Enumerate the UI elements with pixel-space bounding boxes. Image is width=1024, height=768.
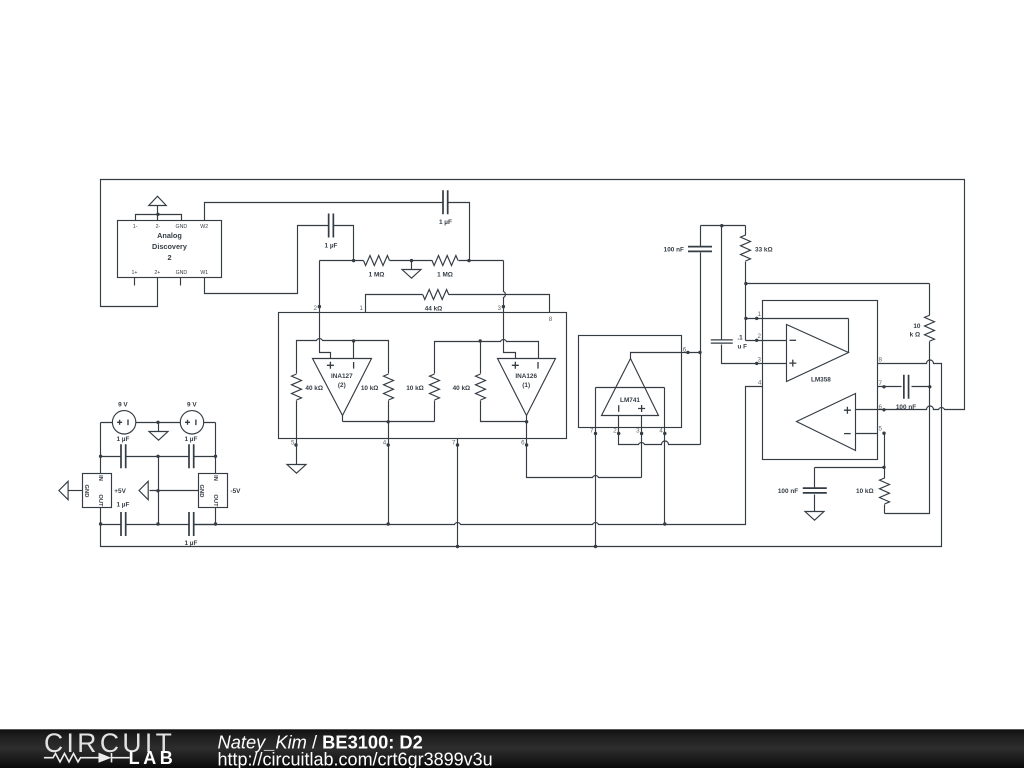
- svg-text:3: 3: [636, 428, 640, 435]
- svg-text:GND: GND: [198, 485, 204, 498]
- svg-text:100 nF: 100 nF: [664, 247, 684, 254]
- svg-text:1 MΩ: 1 MΩ: [369, 272, 385, 279]
- svg-text:8: 8: [879, 357, 883, 364]
- svg-text:4: 4: [659, 428, 663, 435]
- svg-text:(2): (2): [338, 382, 346, 389]
- svg-text:LM741: LM741: [620, 397, 640, 404]
- svg-text:W2: W2: [200, 224, 208, 230]
- svg-text:40 kΩ: 40 kΩ: [453, 385, 471, 392]
- svg-text:7: 7: [452, 440, 456, 447]
- svg-text:2: 2: [167, 253, 171, 262]
- svg-text:LM358: LM358: [811, 376, 831, 383]
- svg-text:1 µF: 1 µF: [116, 501, 129, 508]
- svg-text:1: 1: [758, 311, 762, 318]
- svg-text:INA127: INA127: [331, 373, 353, 380]
- svg-text:44 kΩ: 44 kΩ: [425, 305, 443, 312]
- svg-text:1 µF: 1 µF: [184, 540, 197, 547]
- svg-text:OUT: OUT: [97, 494, 103, 507]
- svg-text:10 kΩ: 10 kΩ: [406, 385, 424, 392]
- svg-text:Analog: Analog: [157, 231, 182, 240]
- svg-text:2: 2: [314, 305, 318, 312]
- svg-text:IN: IN: [212, 475, 218, 481]
- svg-text:1+: 1+: [131, 270, 137, 276]
- svg-text:7: 7: [590, 428, 594, 435]
- svg-text:6: 6: [521, 440, 525, 447]
- svg-text:10: 10: [913, 323, 921, 330]
- svg-text:5: 5: [291, 440, 295, 447]
- svg-text:INA126: INA126: [515, 373, 537, 380]
- svg-text:1 µF: 1 µF: [184, 436, 197, 443]
- svg-text:GND: GND: [176, 224, 188, 230]
- svg-text:http://circuitlab.com/crt6gr38: http://circuitlab.com/crt6gr3899v3u: [218, 750, 493, 768]
- svg-text:.1: .1: [737, 335, 743, 342]
- svg-text:+5V: +5V: [114, 488, 126, 495]
- svg-text:10 kΩ: 10 kΩ: [361, 385, 379, 392]
- svg-text:-5V: -5V: [231, 488, 242, 495]
- svg-text:W1: W1: [200, 270, 208, 276]
- svg-text:GND: GND: [176, 270, 188, 276]
- svg-text:1 MΩ: 1 MΩ: [437, 272, 453, 279]
- svg-text:OUT: OUT: [212, 494, 218, 507]
- svg-text:8: 8: [549, 316, 553, 323]
- svg-text:IN: IN: [97, 475, 103, 481]
- svg-text:u F: u F: [738, 343, 748, 350]
- svg-text:2+: 2+: [154, 270, 160, 276]
- svg-text:1 µF: 1 µF: [439, 219, 452, 226]
- svg-text:9 V: 9 V: [187, 401, 197, 408]
- svg-text:4: 4: [383, 440, 387, 447]
- svg-text:2-: 2-: [156, 224, 161, 230]
- svg-text:2: 2: [758, 333, 762, 340]
- svg-text:40 kΩ: 40 kΩ: [305, 385, 323, 392]
- svg-text:6: 6: [683, 346, 687, 353]
- svg-text:2: 2: [613, 428, 617, 435]
- svg-text:k Ω: k Ω: [910, 332, 920, 339]
- svg-text:3: 3: [498, 305, 502, 312]
- svg-text:1 µF: 1 µF: [325, 243, 338, 250]
- svg-text:5: 5: [879, 426, 883, 433]
- svg-text:33 kΩ: 33 kΩ: [755, 247, 773, 254]
- svg-text:100 nF: 100 nF: [778, 488, 798, 495]
- svg-text:10 kΩ: 10 kΩ: [856, 488, 874, 495]
- svg-text:Discovery: Discovery: [152, 242, 188, 251]
- svg-text:4: 4: [758, 379, 762, 386]
- svg-text:GND: GND: [83, 485, 89, 498]
- svg-text:1 µF: 1 µF: [116, 436, 129, 443]
- svg-text:LAB: LAB: [129, 748, 177, 768]
- svg-text:1: 1: [360, 305, 364, 312]
- svg-text:(1): (1): [522, 382, 530, 389]
- svg-text:1-: 1-: [133, 224, 138, 230]
- svg-text:9 V: 9 V: [118, 401, 128, 408]
- svg-text:6: 6: [879, 404, 883, 411]
- svg-text:7: 7: [879, 380, 883, 387]
- svg-text:100 nF: 100 nF: [896, 404, 916, 411]
- svg-text:3: 3: [758, 356, 762, 363]
